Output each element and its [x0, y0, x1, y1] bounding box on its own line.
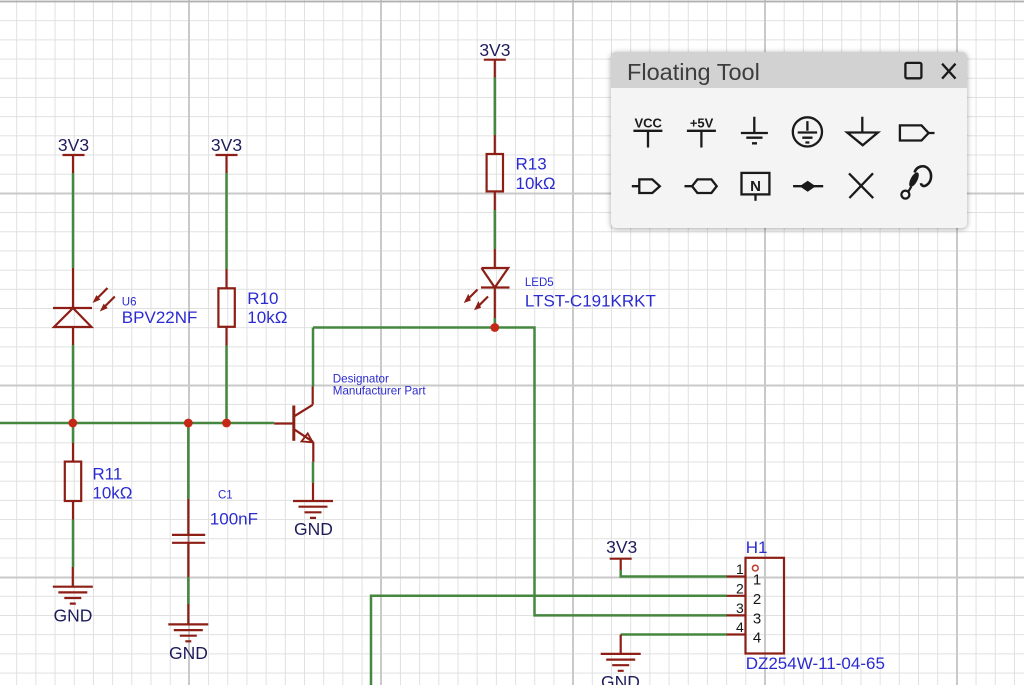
svg-text:3V3: 3V3 [211, 135, 242, 155]
svg-text:GND: GND [169, 643, 208, 663]
svg-text:1: 1 [753, 572, 761, 589]
svg-text:VCC: VCC [634, 116, 662, 131]
svg-text:GND: GND [294, 519, 333, 539]
svg-text:10kΩ: 10kΩ [247, 308, 287, 327]
svg-text:N: N [750, 178, 761, 195]
svg-text:3V3: 3V3 [479, 40, 510, 60]
svg-text:C1: C1 [218, 489, 233, 501]
svg-text:4: 4 [753, 630, 761, 647]
svg-text:H1: H1 [746, 538, 768, 557]
svg-text:2: 2 [753, 591, 761, 608]
svg-text:4: 4 [736, 619, 744, 635]
svg-text:LED5: LED5 [525, 277, 554, 289]
svg-text:U6: U6 [122, 296, 137, 308]
svg-text:10kΩ: 10kΩ [92, 484, 132, 503]
svg-text:+5V: +5V [690, 116, 714, 131]
svg-text:3: 3 [753, 610, 761, 627]
svg-text:DZ254W-11-04-65: DZ254W-11-04-65 [746, 654, 885, 673]
svg-text:BPV22NF: BPV22NF [122, 308, 198, 327]
svg-text:2: 2 [736, 580, 744, 596]
svg-text:GND: GND [54, 606, 93, 626]
svg-text:100nF: 100nF [210, 510, 258, 529]
svg-text:Manufacturer Part: Manufacturer Part [333, 385, 427, 398]
svg-text:R11: R11 [92, 465, 122, 484]
svg-text:10kΩ: 10kΩ [516, 174, 556, 193]
svg-text:R13: R13 [516, 154, 547, 173]
svg-text:3V3: 3V3 [58, 135, 89, 155]
svg-text:LTST-C191KRKT: LTST-C191KRKT [525, 291, 656, 310]
svg-text:1: 1 [736, 561, 744, 577]
svg-text:3: 3 [736, 600, 744, 616]
svg-text:GND: GND [601, 672, 640, 685]
svg-text:R10: R10 [247, 289, 278, 308]
svg-text:3V3: 3V3 [606, 537, 637, 557]
